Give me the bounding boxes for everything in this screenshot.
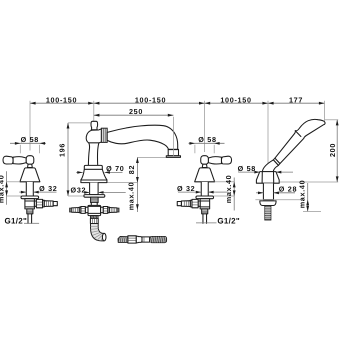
spout flexible hose elbow (91, 224, 106, 241)
label G1/2" (handle2) (196, 216, 240, 225)
svg-text:Ø 58: Ø 58 (198, 135, 216, 144)
handle2 lower thread (202, 209, 208, 214)
accessory flexible hose fitting (118, 236, 167, 243)
handle1 stem (26, 182, 33, 196)
handle2 lever bulb (221, 156, 231, 164)
svg-text:100-150: 100-150 (46, 95, 77, 104)
spout deck flange (84, 195, 105, 198)
spout base flare (81, 169, 107, 182)
svg-text:177: 177 (289, 95, 303, 104)
dimension Ø32 (handle2) (177, 184, 215, 194)
dimension Ø70 (spout base) (76, 164, 124, 174)
top chained dimension line (30, 95, 325, 170)
handle2 bell (195, 168, 215, 182)
shower head-grip junction tick (295, 131, 301, 137)
svg-text:max.40: max.40 (0, 175, 5, 204)
spout column (88, 143, 99, 166)
handle1 side fitting (34, 199, 57, 207)
svg-text:G1/2": G1/2" (5, 217, 28, 226)
shower mounting nut (260, 201, 276, 206)
spout body bulge (86, 129, 101, 143)
handle 1 (left) (3, 156, 57, 224)
shower threaded rod (265, 206, 271, 221)
svg-text:200: 200 (328, 143, 337, 157)
svg-text:Ø 32: Ø 32 (39, 184, 57, 193)
svg-text:G1/2": G1/2" (217, 216, 240, 225)
shower elbow ring (273, 158, 280, 165)
spout deck stem (90, 183, 99, 195)
handle 2 (right, mirrored) (177, 156, 231, 224)
svg-text:Ø 58: Ø 58 (238, 164, 256, 173)
shower cradle cone (256, 172, 279, 184)
extension line spout axis (93, 101, 95, 121)
handle1 lever arm (13, 157, 26, 164)
handle2 ball (201, 156, 209, 165)
handle1 lever bulb (3, 156, 13, 164)
spout lower nipple (ribbed) (90, 218, 98, 223)
dimension max.40 (handle1) (0, 171, 8, 204)
extension line handle2 axis (204, 101, 206, 152)
shower elbow (262, 160, 278, 172)
spout base cap (84, 165, 102, 169)
dimension 196 (spout height) (58, 123, 91, 196)
svg-text:250: 250 (129, 107, 143, 116)
dimension Ø58 (shower cradle) (238, 164, 293, 174)
svg-text:82: 82 (127, 165, 136, 174)
handle1 ball (26, 156, 34, 165)
svg-text:Ø 28: Ø 28 (279, 185, 297, 194)
svg-text:Ø 58: Ø 58 (21, 135, 39, 144)
handle1 bell (20, 168, 40, 182)
handle1 valve body (25, 199, 35, 209)
dimension 200 (shower height) (280, 120, 339, 182)
handle1 lower thread (27, 209, 33, 214)
extension line shower axis (267, 101, 269, 170)
dimension max.40 (shower) (297, 180, 321, 212)
dimension 250 (spout reach) (94, 107, 174, 156)
handle1 tail pipe (28, 214, 32, 224)
svg-text:max.40: max.40 (224, 175, 233, 204)
spout arm (107, 125, 178, 149)
spout (70, 121, 181, 241)
handle2 deck flange (196, 196, 214, 199)
svg-text:max.40: max.40 (297, 180, 306, 209)
svg-text:100-150: 100-150 (135, 95, 166, 104)
cross fitting left arm (70, 207, 88, 214)
extension line shower head tip (324, 101, 326, 122)
spout coupling nut (91, 216, 98, 219)
cross fitting right arm (101, 207, 119, 214)
dimension Ø32 (spout stem) (71, 185, 126, 194)
spout collar (ribbed) (101, 128, 107, 142)
handle2 tail pipe (203, 214, 207, 224)
hand shower (255, 119, 325, 220)
dimension Ø32 (handle1) (19, 184, 57, 194)
spout tailpiece thread (91, 197, 99, 202)
arrows of top dimension (30, 102, 36, 105)
dimension max.40 (handle2) (215, 175, 235, 211)
handle1 deck line (7, 181, 21, 183)
handle2 stem (201, 182, 208, 196)
dimension Ø58 (handle1) (10, 135, 46, 153)
handle2 valve body (200, 199, 210, 209)
svg-text:196: 196 (58, 143, 67, 157)
label G1/2" (handle1) (5, 217, 40, 226)
shower handset silhouette (grip + head) (275, 119, 325, 163)
svg-text:max.40: max.40 (127, 182, 136, 211)
handle1 neck (28, 164, 33, 167)
spout cross fitting body (70, 202, 119, 215)
spout aerator (168, 149, 178, 155)
dimension 82 (spout outlet height) (104, 157, 180, 212)
shower deck line (255, 199, 304, 201)
handle2 lever arm (208, 157, 221, 164)
handle2 side fitting (177, 199, 200, 207)
handle2 deck line (214, 181, 228, 183)
spout finial (91, 121, 98, 130)
dimension Ø58 (handle2) (189, 135, 225, 153)
extension line handle1 axis (29, 101, 31, 151)
handle2 neck (202, 164, 207, 167)
svg-text:Ø32: Ø32 (71, 185, 87, 194)
svg-text:100-150: 100-150 (220, 95, 251, 104)
svg-text:Ø 70: Ø 70 (106, 164, 124, 173)
svg-text:Ø 32: Ø 32 (177, 184, 195, 193)
extension line 250 through aerator (overlay) (172, 130, 174, 157)
shower deck stem (263, 183, 273, 199)
handle1 deck flange (21, 196, 39, 199)
dimension Ø28 (shower stem) (256, 185, 297, 195)
